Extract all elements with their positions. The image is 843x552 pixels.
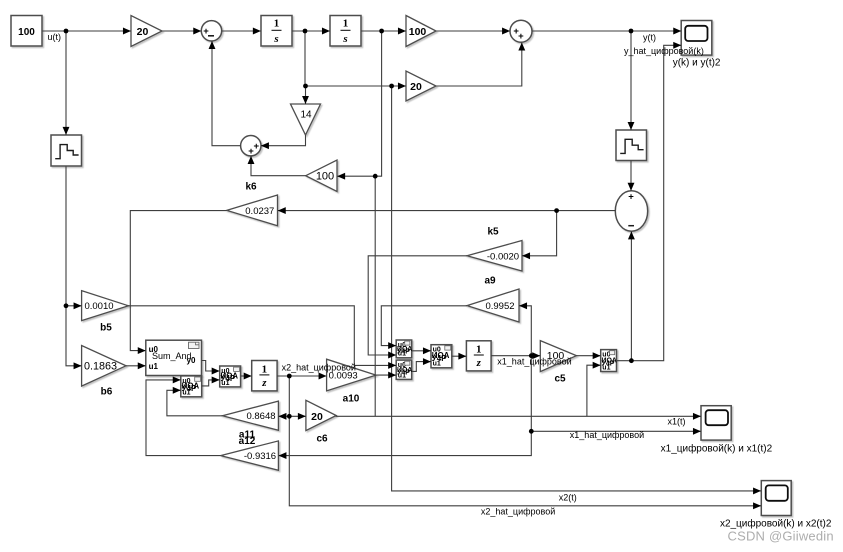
svg-text:k6: k6: [245, 182, 257, 193]
svg-text:x1_цифровой(k) и x1(t)2: x1_цифровой(k) и x1(t)2: [661, 443, 773, 455]
wire gain100 to S3: [436, 30, 510, 32]
gain 20 (input gain): [131, 16, 162, 47]
gain 0.0237 (left): [227, 195, 278, 226]
wire B7 to y_hat scope input2: [617, 45, 682, 360]
integrator 1/s U1: [261, 16, 292, 47]
wire gain c5 to B7 input1: [576, 355, 600, 357]
svg-text:a9: a9: [484, 276, 496, 287]
wire y(t) drop to ZOH2: [630, 31, 632, 130]
svg-text:x1_hat_цифровой: x1_hat_цифровой: [497, 357, 571, 367]
svg-text:1: 1: [343, 18, 349, 30]
svg-text:u1: u1: [602, 364, 610, 371]
svg-text:s: s: [342, 33, 347, 45]
svg-text:b6: b6: [101, 387, 113, 398]
wire c6 output to scope x1 input1: [336, 415, 701, 418]
node rowB left: [303, 84, 308, 89]
sum S1: [201, 21, 221, 41]
wire gain k6 to S2 bottom: [251, 156, 306, 176]
wire const to gain20: [43, 30, 131, 32]
gain 14 (down): [291, 104, 321, 135]
wire gain b5 to B5 input1: [129, 306, 396, 366]
gain a9 0.9952 (left): [467, 289, 519, 322]
subsystem small block B3: [220, 366, 241, 387]
wire B2 to B3 input2: [202, 380, 220, 386]
svg-text:x2(t): x2(t): [559, 493, 577, 503]
svg-text:+: +: [248, 146, 254, 157]
svg-text:x1_hat_цифровой: x1_hat_цифровой: [570, 430, 644, 440]
node b5 input: [64, 303, 69, 308]
wire S2 to S1 minus: [212, 41, 241, 145]
wire riser to B7 input2: [587, 365, 601, 416]
svg-text:1: 1: [476, 343, 482, 355]
svg-text:+: +: [628, 191, 634, 202]
wire k6 junction drop: [374, 176, 376, 416]
gain c5 100: [540, 341, 576, 372]
zero-order hold ZOH1: [51, 135, 82, 166]
subsystem small block B2: [181, 376, 202, 397]
svg-text:y(k) и y(t)2: y(k) и y(t)2: [673, 58, 721, 69]
svg-text:y0: y0: [187, 356, 196, 365]
subsystem small block B5: [396, 360, 412, 379]
wire branch to scope x1 input2: [531, 430, 700, 432]
wire branch to gain c6: [289, 415, 305, 417]
wire S3 to scope y: [532, 30, 681, 32]
svg-text:0.0237: 0.0237: [245, 206, 274, 217]
sum E1 (ellipse): [615, 191, 647, 231]
svg-text:x2_hat_цифровой: x2_hat_цифровой: [282, 363, 356, 373]
svg-text:a10: a10: [343, 393, 360, 404]
svg-text:14: 14: [300, 110, 312, 121]
svg-text:c5: c5: [554, 374, 566, 385]
gain 20 (row B): [406, 71, 436, 101]
node u(t): [64, 29, 69, 34]
sum S3: [510, 20, 532, 42]
wire gain a9 to B4 input1: [381, 306, 467, 346]
wire x2_hat drop to scope x2 input2: [289, 376, 761, 506]
sum S2 (k6 sum): [241, 136, 261, 158]
wire integrator1 tap to gain20 rowB: [305, 31, 406, 86]
svg-text:1: 1: [274, 18, 280, 30]
node c6 branch: [287, 414, 292, 419]
scope y(k) и y(t)2: [681, 21, 712, 56]
svg-text:100: 100: [316, 170, 334, 182]
wire gain a11 to B2 input2: [167, 390, 223, 416]
wire branch to gain a11: [279, 415, 290, 417]
svg-text:u1: u1: [433, 361, 441, 368]
node x1_hat scope branch: [529, 429, 534, 434]
wire Sum_And y0 to B3 input1: [202, 361, 220, 372]
wire B3 to delay D1: [241, 375, 252, 377]
svg-text:100: 100: [18, 27, 35, 38]
wire ZOH1 to b5 b6: [66, 167, 81, 366]
wire B6 to delay D2: [452, 355, 466, 357]
svg-text:CSDN @Giiwedin: CSDN @Giiwedin: [728, 529, 834, 544]
unit delay 1/z D1: [252, 361, 277, 391]
wire integrator2 tap to gain k6: [337, 31, 381, 176]
wire gain k5 to B4 input2: [368, 256, 467, 355]
node k6 line: [373, 174, 378, 179]
wire u(t) drop to ZOH1: [65, 31, 67, 135]
wire tap to gain14: [305, 86, 307, 104]
svg-text:+: +: [254, 141, 260, 152]
node integrator1 out: [303, 29, 308, 34]
wire x1_hat down to gain a12: [279, 356, 532, 456]
svg-text:c6: c6: [316, 433, 328, 444]
svg-text:1: 1: [262, 363, 268, 375]
gain b6 0.1863: [82, 346, 126, 387]
node integrator2 out: [379, 29, 384, 34]
svg-text:u1: u1: [221, 380, 229, 387]
svg-text:-0.9316: -0.9316: [244, 451, 276, 462]
node x2_hat: [287, 374, 292, 379]
svg-text:u1: u1: [149, 362, 159, 371]
wire gain a12 to B2 input1: [146, 380, 221, 456]
wire integrator2 to gain100: [361, 30, 406, 32]
svg-text:b5: b5: [100, 323, 112, 334]
node err line: [554, 208, 559, 213]
svg-text:s: s: [273, 33, 278, 45]
svg-text:k5: k5: [487, 227, 499, 238]
node x1_hat: [529, 353, 534, 358]
subsystem small block B4: [396, 340, 412, 358]
wire D2 to gain c5: [491, 355, 540, 357]
wire integrator1 to integrator2: [292, 30, 330, 32]
svg-text:x2_hat_цифровой: x2_hat_цифровой: [481, 507, 555, 517]
unit delay 1/z D2: [466, 341, 491, 371]
wire x1_hat up to gain a9: [519, 306, 531, 356]
svg-text:u(t): u(t): [48, 32, 62, 42]
gain c6 20: [306, 400, 336, 430]
wire E1 output to gain 0.0237: [278, 210, 615, 212]
wire gain a10 to B5 input2: [376, 374, 396, 376]
gain a11 0.8648 (left): [223, 401, 279, 430]
svg-text:-0.0020: -0.0020: [487, 251, 519, 262]
wire gain b6 to Sum_And u1: [126, 365, 146, 367]
svg-text:x1(t): x1(t): [668, 417, 686, 427]
svg-text:y_hat_цифровой(k): y_hat_цифровой(k): [624, 46, 704, 56]
constant block 100 (u source): [11, 16, 42, 47]
subsystem small block B7: [601, 350, 617, 372]
svg-text:y(t): y(t): [643, 33, 656, 43]
node y(t): [629, 29, 634, 34]
svg-text:100: 100: [409, 26, 427, 38]
zero-order hold ZOH2: [616, 130, 647, 161]
wire B4 to B6 input1: [412, 350, 431, 352]
wire branch to gain b5: [66, 305, 81, 307]
gain k6 100 (left): [306, 160, 337, 191]
svg-text:20: 20: [137, 26, 149, 38]
gain k5 -0.0020 (left): [467, 241, 522, 272]
wire gain20 to S1: [162, 30, 201, 32]
scope x2_цифровой(k) и x2(t)2: [761, 481, 791, 516]
node rowB right: [389, 84, 394, 89]
wire B5 to B6 input2: [412, 362, 431, 372]
gain a12 -0.9316 (left): [221, 441, 279, 470]
svg-text:20: 20: [410, 81, 422, 93]
svg-text:a12: a12: [239, 436, 256, 447]
wire S1 to integrator1: [222, 30, 261, 32]
svg-text:0.9952: 0.9952: [485, 301, 514, 312]
gain b5 0.0010: [82, 291, 129, 321]
subsystem Sum_And: [146, 340, 202, 375]
svg-text:u1: u1: [398, 351, 406, 358]
subsystem small block B6: [431, 345, 452, 368]
svg-text:z: z: [261, 377, 267, 389]
svg-text:z: z: [476, 357, 482, 369]
wire k5 branch: [522, 211, 556, 256]
wire gain20 rowB to S3 bottom: [436, 43, 522, 86]
gain 100 (output gain): [406, 16, 436, 47]
wire x2 long drop to scope x2 input1: [392, 86, 761, 491]
svg-text:+: +: [518, 31, 524, 42]
scope x1_цифровой(k) и x1(t)2: [701, 406, 731, 440]
wire ZOH2 to E1 plus: [630, 161, 632, 191]
svg-text:0.0010: 0.0010: [84, 301, 113, 312]
svg-text:u1: u1: [398, 372, 406, 379]
svg-text:20: 20: [311, 411, 323, 423]
wire D1 to gain a10: [277, 375, 326, 377]
svg-text:u1: u1: [182, 390, 190, 397]
gain a10 0.0093: [327, 359, 376, 391]
wire gain14 to S2 right: [261, 135, 305, 146]
integrator 1/s U2: [330, 16, 361, 47]
wire riser to E1 minus: [630, 232, 632, 361]
node y_hat: [629, 358, 634, 363]
wire gain 0.0237 to Sum_And u0: [130, 211, 226, 351]
svg-text:0.1863: 0.1863: [84, 361, 117, 373]
svg-text:0.8648: 0.8648: [246, 411, 275, 422]
